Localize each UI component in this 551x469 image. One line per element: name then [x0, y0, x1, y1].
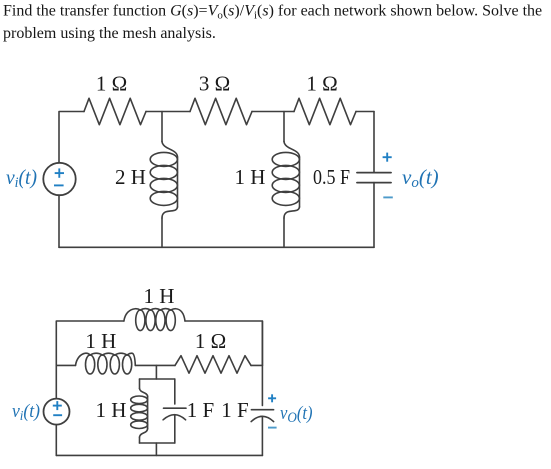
- wire: left rail above source: [55, 365, 57, 398]
- svg-text:vi(t): vi(t): [12, 401, 40, 424]
- wire: top rail left of L4: [56, 321, 124, 365]
- inductor L1 2H coil: [150, 141, 177, 218]
- wire: right rail upper: [261, 321, 263, 406]
- capacitor C1 0.5F plates: [357, 173, 391, 183]
- source V2 plus-minus: [53, 401, 62, 415]
- wire: box right upper segment: [174, 379, 176, 404]
- wire: box left upper segment: [139, 379, 141, 389]
- svg-text:Find the transfer function G(s: Find the transfer function G(s)=Vo(s)/Vi…: [3, 3, 542, 22]
- wire: bottom rail: [59, 246, 374, 248]
- wire: R2 to node B: [252, 111, 294, 113]
- wire: node A vertical stub: [161, 112, 163, 142]
- wire: middle branch to resistor R4: [135, 364, 175, 366]
- wire: box right lower segment: [174, 415, 176, 443]
- wire: bottom rail: [56, 454, 262, 456]
- resistor R4 1ohm zigzag: [175, 356, 251, 374]
- svg-text:problem using the mesh analysi: problem using the mesh analysis.: [3, 25, 216, 42]
- problem statement text: [3, 3, 542, 43]
- svg-text:1 F: 1 F: [221, 398, 248, 422]
- inductor L5 1H middle coil: [76, 353, 136, 374]
- wire: right rail top: [373, 112, 375, 173]
- resistor R3 1ohm zigzag: [294, 98, 356, 124]
- wire: LC box top edge: [140, 378, 175, 380]
- wire: stub from box to bottom rail: [155, 443, 157, 455]
- minus sign output C3: [268, 427, 277, 429]
- svg-text:vO(t): vO(t): [280, 403, 313, 426]
- wire: R3 to top-right corner: [356, 111, 374, 113]
- wire: R4 to right rail: [251, 364, 262, 366]
- wire: right rail bottom: [373, 183, 375, 248]
- wire: top rail right of L4: [185, 321, 262, 365]
- minus sign output C1: [383, 196, 393, 198]
- wire: right rail lower: [261, 417, 263, 455]
- inductor L4 1H top coil: [124, 309, 185, 331]
- svg-text:3 Ω: 3 Ω: [199, 72, 230, 96]
- wire: top-left segment to resistor R1: [59, 112, 84, 163]
- resistor R2 3ohm zigzag: [190, 98, 252, 124]
- plus sign output C3: [268, 394, 276, 402]
- svg-text:2 H: 2 H: [115, 165, 146, 189]
- svg-text:1 H: 1 H: [235, 165, 266, 189]
- svg-text:1 Ω: 1 Ω: [306, 72, 337, 96]
- wire: node B vertical stub: [283, 112, 285, 142]
- svg-text:0.5 F: 0.5 F: [313, 165, 350, 189]
- wire: L2 bottom to bottom rail: [283, 218, 285, 247]
- wire: LC box bottom edge: [140, 442, 175, 444]
- voltage source V1 circle: [43, 163, 75, 195]
- wire: box left lower segment: [140, 429, 148, 438]
- svg-text:1 Ω: 1 Ω: [96, 72, 127, 96]
- svg-text:vo(t): vo(t): [402, 165, 439, 191]
- wire: node stub down to LC box: [155, 365, 157, 379]
- svg-text:1 Ω: 1 Ω: [195, 329, 226, 353]
- voltage source V2 circle: [44, 399, 70, 425]
- wire: left rail below source: [55, 425, 57, 456]
- svg-text:1 H: 1 H: [85, 329, 116, 353]
- plus sign output C1: [383, 153, 392, 162]
- wire: L1 bottom to bottom rail: [161, 218, 163, 247]
- svg-text:1 F: 1 F: [187, 398, 214, 422]
- wire: middle branch left: [56, 364, 75, 366]
- svg-text:1 H: 1 H: [96, 398, 127, 422]
- capacitor C2 1F in box: [163, 408, 186, 420]
- resistor R1 1ohm zigzag: [84, 98, 146, 124]
- inductor L3 1H coil in box: [131, 396, 148, 429]
- wire: left rail below source: [58, 195, 60, 247]
- inductor L2 1H coil: [272, 141, 299, 218]
- capacitor C3 1F output: [251, 410, 273, 422]
- source V1 plus-minus: [54, 168, 64, 185]
- svg-text:vi(t): vi(t): [6, 165, 37, 191]
- wire: R1 to node A: [146, 111, 190, 113]
- svg-text:1 H: 1 H: [144, 284, 175, 308]
